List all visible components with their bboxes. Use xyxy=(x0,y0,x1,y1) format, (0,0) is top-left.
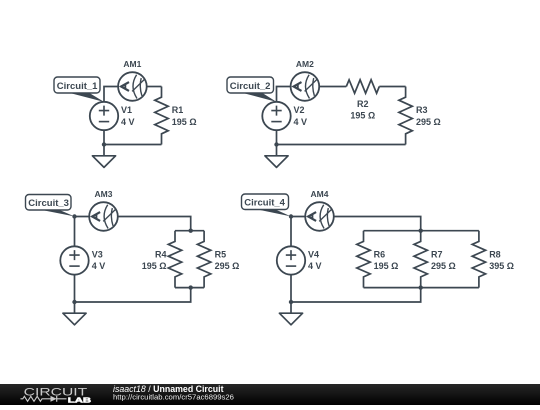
svg-text:Circuit_1: Circuit_1 xyxy=(57,81,98,92)
wire parallel bottom bar xyxy=(364,287,479,289)
svg-text:LAB: LAB xyxy=(68,396,92,405)
svg-text:4 V: 4 V xyxy=(308,261,322,271)
ground xyxy=(63,313,86,325)
svg-text:295 Ω: 295 Ω xyxy=(416,117,441,127)
wire parallel bottom bar xyxy=(175,287,204,289)
resistor R4 xyxy=(168,231,181,288)
junction node circuit 3 ground node xyxy=(72,300,76,304)
node flag Circuit_3 xyxy=(26,195,75,217)
resistor R3 xyxy=(399,87,412,145)
wire AM2 to R2 xyxy=(319,86,346,88)
svg-text:AM1: AM1 xyxy=(123,59,141,69)
wire R3 bottom to node xyxy=(277,144,406,146)
svg-text:195 Ω: 195 Ω xyxy=(350,110,375,120)
junction node parallel bottom node xyxy=(189,285,193,289)
ground xyxy=(265,156,288,168)
svg-text:195 Ω: 195 Ω xyxy=(142,261,167,271)
wire parallel top bar xyxy=(364,230,479,232)
svg-text:R3: R3 xyxy=(416,105,428,115)
svg-text:195 Ω: 195 Ω xyxy=(172,117,197,127)
wire V1 top to AM1 xyxy=(104,87,118,102)
label R5 295 &#937; xyxy=(215,250,240,272)
wire V4 top to AM4 xyxy=(291,217,305,247)
svg-text:V2: V2 xyxy=(294,105,305,115)
wire V2 top to AM2 xyxy=(277,87,291,102)
voltage source V4 xyxy=(277,246,305,274)
ammeter AM3 xyxy=(89,202,118,231)
ammeter AM4 xyxy=(305,202,334,231)
svg-text:AM4: AM4 xyxy=(311,189,329,199)
svg-text:295 Ω: 295 Ω xyxy=(431,261,456,271)
wire bank to V3 bottom xyxy=(75,288,191,302)
svg-text:V1: V1 xyxy=(121,105,132,115)
label R6 195 &#937; xyxy=(374,250,399,272)
resistor R1 xyxy=(155,87,168,145)
wire V1 bottom to ground xyxy=(103,130,105,156)
svg-text:4 V: 4 V xyxy=(121,117,135,127)
label V3 4 V xyxy=(92,250,106,272)
wire parallel top bar xyxy=(175,230,204,232)
label R4 195 &#937; xyxy=(142,250,167,272)
footer bar xyxy=(0,384,540,405)
ground xyxy=(92,156,115,168)
label R8 395 &#937; xyxy=(489,250,514,272)
label V1 4 V xyxy=(121,105,135,127)
ammeter AM2 xyxy=(291,72,320,101)
wire AM4 to parallel bank xyxy=(334,217,421,231)
svg-text:295 Ω: 295 Ω xyxy=(215,261,240,271)
svg-text:V3: V3 xyxy=(92,250,103,260)
label R1 195 &#937; xyxy=(172,105,197,127)
footer title text xyxy=(113,384,234,401)
label R7 295 &#937; xyxy=(431,250,456,272)
svg-text:http://circuitlab.com/cr57ac68: http://circuitlab.com/cr57ac6899s26 xyxy=(113,392,234,401)
label V2 4 V xyxy=(294,105,308,127)
junction node parallel top node xyxy=(189,229,193,233)
wire AM1 to R1 xyxy=(147,86,162,88)
svg-text:4 V: 4 V xyxy=(294,117,308,127)
voltage source V2 xyxy=(262,102,290,130)
resistor R6 xyxy=(357,231,370,288)
junction node parallel bottom node xyxy=(419,285,423,289)
junction node circuit 2 ground node xyxy=(274,142,278,146)
wire V3 top to AM3 xyxy=(75,217,90,247)
resistor R5 xyxy=(197,231,210,288)
node flag Circuit_1 xyxy=(54,77,104,102)
voltage source V3 xyxy=(60,246,88,274)
svg-text:R1: R1 xyxy=(172,105,184,115)
svg-text:Circuit_3: Circuit_3 xyxy=(28,198,69,209)
svg-text:AM3: AM3 xyxy=(95,189,113,199)
junction node circuit 1 ground node xyxy=(102,142,106,146)
svg-text:R2: R2 xyxy=(357,99,369,109)
wire V3 bottom to ground xyxy=(74,275,76,314)
wire R1 bottom to node xyxy=(104,144,162,146)
svg-text:R5: R5 xyxy=(215,250,227,260)
svg-text:R6: R6 xyxy=(374,250,386,260)
voltage source V1 xyxy=(90,102,118,130)
ammeter AM1 xyxy=(118,72,147,101)
junction node parallel top node xyxy=(419,229,423,233)
node flag Circuit_4 xyxy=(242,194,291,216)
node flag Circuit_2 xyxy=(227,77,277,102)
CircuitLab logo xyxy=(21,387,92,405)
svg-text:Circuit_2: Circuit_2 xyxy=(230,81,271,92)
wire V2 bottom to ground xyxy=(276,130,278,156)
svg-text:AM2: AM2 xyxy=(296,59,314,69)
junction node circuit 3 top node xyxy=(72,214,76,218)
resistor R2 xyxy=(346,80,379,93)
resistor R8 xyxy=(472,231,485,288)
svg-text:395 Ω: 395 Ω xyxy=(489,261,514,271)
label R3 295 &#937; xyxy=(416,105,441,127)
svg-text:R7: R7 xyxy=(431,250,443,260)
ground xyxy=(279,313,302,325)
wire AM3 to parallel bank xyxy=(118,217,191,231)
resistor R7 xyxy=(414,231,427,288)
junction node circuit 4 ground node xyxy=(289,300,293,304)
svg-text:Circuit_4: Circuit_4 xyxy=(244,197,285,208)
svg-text:R4: R4 xyxy=(155,250,167,260)
wire V4 bottom to ground xyxy=(290,275,292,314)
svg-text:V4: V4 xyxy=(308,250,319,260)
svg-text:R8: R8 xyxy=(489,250,501,260)
junction node circuit 4 top node xyxy=(289,214,293,218)
svg-text:195 Ω: 195 Ω xyxy=(374,261,399,271)
wire bank to V4 bottom xyxy=(291,288,421,302)
svg-text:4 V: 4 V xyxy=(92,261,106,271)
label R2 195 &#937; xyxy=(350,99,375,121)
label V4 4 V xyxy=(308,250,322,272)
wire R2 to R3 xyxy=(379,86,405,88)
